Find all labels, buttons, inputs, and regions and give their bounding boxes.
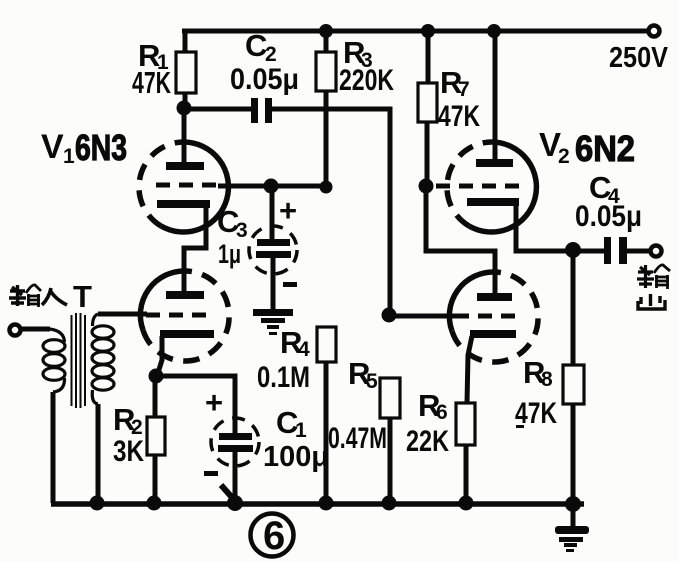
node grid V1 upper / C3 <box>264 179 279 194</box>
svg-text:7: 7 <box>458 78 470 101</box>
triode V1 lower envelope <box>140 271 229 361</box>
svg-text:47K: 47K <box>132 65 171 100</box>
wire C3 bottom lead <box>271 257 276 310</box>
label R5 <box>348 356 378 393</box>
svg-text:250V: 250V <box>609 42 669 74</box>
node rail R6 <box>459 496 474 511</box>
wire V1 upper plate lead <box>182 108 187 163</box>
wire V2 upper cathode to output node <box>516 204 604 251</box>
label R7 <box>440 65 470 101</box>
node rail V2 plate <box>487 24 501 38</box>
label V1 6N3 <box>41 127 127 168</box>
svg-text:V: V <box>41 128 64 166</box>
svg-text:6N2: 6N2 <box>575 128 635 169</box>
label figure 6 <box>251 514 294 559</box>
svg-text:T: T <box>73 279 92 314</box>
wire cathode node to C1 <box>156 376 235 434</box>
svg-text:4: 4 <box>298 338 310 361</box>
wire C1 bottom lead <box>233 450 238 503</box>
resistor R8 <box>563 250 584 505</box>
node rail R4 <box>319 496 334 511</box>
resistor R3 <box>316 31 336 182</box>
ground C3 <box>253 309 293 335</box>
V1 upper cathode bar <box>157 200 210 208</box>
input terminal <box>10 325 21 336</box>
V1 upper plate bar <box>166 162 204 170</box>
V1 lower plate bar <box>166 291 204 299</box>
label C2 <box>245 28 277 66</box>
node rail transformer <box>90 496 105 511</box>
node rail R7 top <box>421 24 435 38</box>
wire V1 lower cathode lead <box>157 336 162 376</box>
capacitor C4 <box>604 237 627 264</box>
wire input lead <box>21 327 50 332</box>
wire V1 lower grid to transformer <box>98 312 147 317</box>
V2 upper cathode bar <box>467 198 519 206</box>
wire C1 arrow tick <box>221 485 236 502</box>
node rail C1 <box>227 495 243 511</box>
label output 输出 <box>637 265 670 309</box>
wire C2 left lead <box>184 107 252 112</box>
svg-text:8: 8 <box>541 368 553 391</box>
capacitor C3 <box>249 226 297 274</box>
label C3 minus <box>283 282 297 287</box>
triode V1 upper envelope <box>139 142 228 232</box>
resistor R4 <box>317 327 336 503</box>
resistor R6 <box>456 403 475 503</box>
label R1 <box>138 38 169 74</box>
wire C2 right lead to V2 grid column <box>272 109 390 313</box>
svg-text:+: + <box>279 193 297 228</box>
svg-text:5: 5 <box>366 370 378 393</box>
node grid V2 upper <box>419 179 434 194</box>
label C4 <box>589 170 620 208</box>
node output <box>565 242 581 258</box>
node rail R2 <box>147 496 162 511</box>
svg-text:0.05μ: 0.05μ <box>230 63 299 96</box>
label R3 <box>343 35 373 72</box>
250V terminal <box>649 26 660 37</box>
resistor R1 <box>176 29 196 108</box>
svg-text:0.47M: 0.47M <box>328 422 387 455</box>
label R6 <box>418 388 448 424</box>
resistor R2 <box>147 376 165 503</box>
svg-text:3K: 3K <box>113 435 144 468</box>
wire grid V2 lower <box>389 314 455 319</box>
node rail R5 <box>382 496 397 511</box>
svg-text:1μ: 1μ <box>218 239 241 269</box>
node grid V2 lower <box>382 308 397 323</box>
label V2 6N2 <box>539 126 635 169</box>
V2 upper plate bar <box>476 159 513 167</box>
wire top power rail <box>182 29 648 34</box>
svg-text:22K: 22K <box>406 425 449 458</box>
V2 lower grid dashed <box>455 314 518 319</box>
svg-text:220K: 220K <box>339 64 394 97</box>
svg-text:100μ: 100μ <box>263 441 329 473</box>
svg-text:47K: 47K <box>438 100 480 133</box>
node cathode V1 lower <box>149 369 164 384</box>
svg-text:6: 6 <box>436 401 448 424</box>
transformer T primary <box>43 329 65 392</box>
wire C3 top lead <box>270 186 275 240</box>
triode V2 upper envelope <box>447 142 536 232</box>
wire V2 lower cathode lead <box>467 336 472 403</box>
capacitor C2 <box>251 98 272 123</box>
label R4 <box>280 325 310 361</box>
V2 upper grid dashed <box>436 184 520 189</box>
wire V2 upper plate lead <box>493 31 498 160</box>
label R2 <box>113 402 143 439</box>
wire V1 upper grid to node <box>218 184 326 189</box>
label C1 <box>276 405 307 442</box>
V1 upper grid dashed <box>156 183 220 188</box>
label R8 <box>523 355 553 391</box>
wire secondary lead down <box>96 404 101 503</box>
output terminal <box>651 246 662 257</box>
svg-text:+: + <box>205 385 223 420</box>
wire primary lead down <box>51 392 56 503</box>
ground main <box>555 504 589 552</box>
resistor R5 <box>380 378 400 503</box>
transformer T core <box>72 313 86 408</box>
svg-text:0.05μ: 0.05μ <box>575 200 642 233</box>
node plate V1 upper junction <box>177 101 192 116</box>
svg-text:1: 1 <box>63 145 75 168</box>
resistor R7 <box>418 31 437 186</box>
svg-text:0.1M: 0.1M <box>257 361 310 394</box>
svg-text:6N3: 6N3 <box>75 127 127 168</box>
label C3 <box>217 204 248 242</box>
triode V2 lower envelope <box>449 272 538 362</box>
V2 lower cathode bar <box>470 330 516 338</box>
svg-text:1: 1 <box>295 419 307 442</box>
svg-text:6: 6 <box>263 514 285 558</box>
node rail R8 <box>565 496 581 512</box>
V1 lower grid dashed <box>146 313 210 318</box>
svg-text:2: 2 <box>558 145 570 168</box>
label C1 minus <box>204 471 218 476</box>
capacitor C1 <box>211 418 259 466</box>
transformer T secondary <box>92 314 114 404</box>
V1 lower cathode bar <box>160 330 214 338</box>
wire R7 bottom to V2 lower plate <box>426 186 495 293</box>
wire C4 right lead <box>627 249 650 254</box>
label input 输入 <box>9 285 67 307</box>
node grid bias R3 R4 <box>320 181 333 194</box>
node rail R3 top <box>319 24 333 38</box>
wire bottom ground rail <box>51 501 584 507</box>
wire V1 upper cathode to V1 lower plate <box>184 206 206 292</box>
V2 lower plate bar <box>477 293 512 301</box>
